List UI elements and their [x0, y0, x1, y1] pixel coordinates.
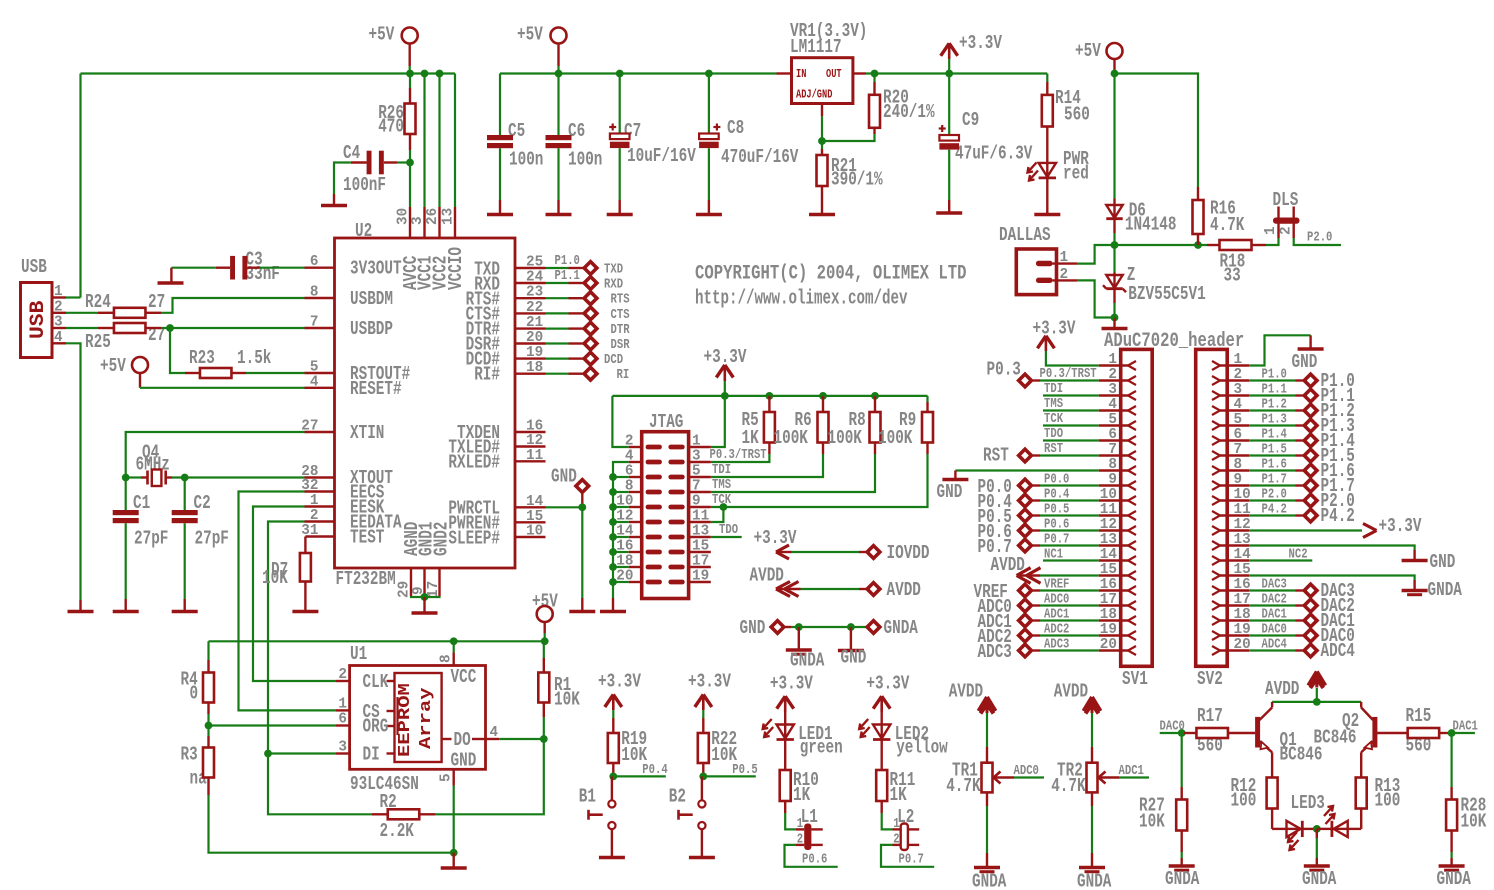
svg-text:RST: RST [983, 445, 1009, 467]
wire DAC3 from SV2 [1249, 578, 1303, 593]
capacitor C7 10uF/16V [607, 74, 697, 215]
svg-text:ADC3: ADC3 [978, 641, 1012, 663]
svg-text:ADC1: ADC1 [1044, 608, 1069, 623]
svg-text:B1: B1 [579, 786, 596, 808]
svg-text:GND: GND [451, 750, 477, 772]
wire DALLAS pin1 to data line [1078, 245, 1115, 264]
svg-text:P1.4: P1.4 [1262, 428, 1287, 443]
wire P1.3 from SV2 [1249, 413, 1303, 428]
wire NC1 stub [1043, 548, 1099, 563]
svg-text:Array: Array [417, 688, 436, 750]
svg-text:1: 1 [1262, 226, 1279, 235]
svg-text:P1.0: P1.0 [1262, 368, 1287, 383]
wire C3 to ground [158, 268, 216, 283]
svg-text:GNDA: GNDA [884, 617, 919, 639]
wire R5 to TRST [711, 454, 770, 462]
svg-text:1: 1 [1060, 249, 1069, 266]
LED3 pair [1272, 792, 1361, 850]
port RST [983, 445, 1032, 467]
svg-text:240/1%: 240/1% [883, 101, 935, 123]
wire EECS to EEPROM CS [239, 492, 336, 711]
capacitor C1 27pF [113, 478, 169, 612]
svg-text:470uF/16V: 470uF/16V [721, 146, 799, 168]
svg-text:R24: R24 [85, 291, 111, 313]
port P1.5 (SV2) [1304, 445, 1355, 467]
svg-text:470: 470 [378, 116, 404, 138]
wire DALLAS pin2 to ground [1078, 280, 1115, 317]
transistor Q1 BC846 [1258, 708, 1323, 778]
wire P2.0 from SV2 [1249, 488, 1303, 503]
wire ADC1 to SV1 [1033, 608, 1099, 623]
LED PWR red [1028, 148, 1090, 215]
wire DAC0 to R17 [1160, 729, 1186, 737]
svg-text:10uF/16V: 10uF/16V [627, 145, 696, 167]
svg-text:20: 20 [1234, 636, 1251, 653]
wire R25 to USBDP [161, 324, 305, 373]
wire ADC3 to SV1 [1033, 638, 1099, 653]
svg-text:+3.3V: +3.3V [1379, 515, 1422, 537]
svg-text:5: 5 [438, 773, 455, 782]
svg-text:4.7K: 4.7K [1210, 214, 1245, 236]
svg-text:GND: GND [740, 617, 766, 639]
svg-text:4.7K: 4.7K [1051, 775, 1086, 797]
svg-text:+5V: +5V [532, 591, 558, 613]
svg-text:GNDA: GNDA [1302, 868, 1337, 890]
trimmer TR2 4.7K [1051, 747, 1119, 806]
svg-text:USBDM: USBDM [350, 288, 393, 310]
svg-text:C9: C9 [962, 109, 979, 131]
wire net RXD [546, 282, 584, 284]
voltage regulator VR1 LM1117 [777, 20, 868, 116]
svg-text:4.7K: 4.7K [946, 775, 981, 797]
wire TDO from JTAG pin13 [711, 523, 742, 538]
svg-text:FT232BM: FT232BM [336, 568, 396, 590]
svg-text:P0.7: P0.7 [899, 853, 924, 868]
svg-text:4: 4 [310, 373, 319, 390]
svg-text:ADC4: ADC4 [1262, 638, 1287, 653]
power +5V symbol (EEPROM) [532, 591, 558, 634]
resistor R14 560 [1042, 74, 1090, 163]
svg-text:VCC: VCC [451, 666, 477, 688]
wire net CTS [546, 312, 584, 314]
port DAC0 (SV2) [1304, 625, 1355, 647]
svg-text:+5V: +5V [517, 24, 543, 46]
power AVDD arrow (TR2) [1054, 681, 1101, 747]
svg-text:P4.2: P4.2 [1321, 505, 1355, 527]
svg-text:P1.2: P1.2 [1262, 398, 1287, 413]
port VREF [974, 581, 1032, 603]
LED LED2 yellow [859, 712, 948, 770]
svg-text:10K: 10K [262, 567, 288, 589]
svg-text:1K: 1K [793, 784, 811, 806]
svg-text:SV1: SV1 [1122, 668, 1148, 690]
svg-text:P1.0: P1.0 [555, 254, 580, 269]
svg-text:C4: C4 [343, 142, 360, 164]
wire P0.6 net [785, 845, 838, 868]
button B1 [579, 776, 625, 857]
IC U2 FT232BM [301, 207, 545, 598]
svg-text:P0.4: P0.4 [642, 763, 667, 778]
svg-text:560: 560 [1064, 104, 1090, 126]
resistor R17 560 [1184, 705, 1255, 757]
svg-text:GND: GND [551, 466, 577, 488]
svg-text:U1: U1 [350, 643, 367, 665]
resistor R21 390/1% [809, 116, 883, 214]
port P1.6 (SV2) [1304, 460, 1355, 482]
ground GNDA symbol [786, 627, 825, 672]
svg-text:DSR: DSR [611, 338, 631, 353]
svg-text:GNDA: GNDA [1437, 868, 1472, 890]
svg-text:19: 19 [692, 568, 709, 585]
svg-text:RI: RI [617, 368, 630, 383]
wire TDI to SV1 pin3 [1043, 382, 1099, 397]
svg-text:ORG: ORG [363, 716, 389, 738]
wire EESK to EEPROM CLK [253, 507, 336, 682]
svg-text:10: 10 [526, 523, 543, 540]
svg-text:P1.7: P1.7 [1262, 473, 1287, 488]
wire DAC1 from SV2 [1249, 608, 1303, 623]
svg-text:EEPROM: EEPROM [396, 683, 415, 757]
trimmer TR1 4.7K [946, 747, 1014, 806]
power +3.3V arrow (R22) [688, 671, 731, 719]
wire SV2 pin13 to GND [1249, 546, 1455, 574]
wire +5V rail to VCC pins [81, 66, 456, 298]
wire TCK to SV1 pin5 [1043, 412, 1099, 427]
svg-text:IN: IN [796, 67, 806, 81]
wire TDO to SV1 pin6 [1043, 427, 1099, 442]
svg-text:TCK: TCK [1044, 412, 1064, 427]
svg-text:AVDD: AVDD [949, 681, 983, 703]
wire +3.3V pull-up rail [612, 392, 927, 447]
svg-text:AVDD: AVDD [1265, 678, 1299, 700]
resistor R27 10K [1139, 733, 1187, 852]
svg-text:8: 8 [310, 284, 319, 301]
resistor R5 1K [742, 396, 775, 454]
button B2 [669, 776, 715, 857]
power +3.3V arrow (SV1 pin1) [1033, 318, 1076, 352]
svg-text:4: 4 [54, 329, 63, 346]
svg-text:390/1%: 390/1% [831, 169, 883, 191]
svg-text:10K: 10K [1461, 811, 1487, 833]
wire AVDD rail to Q1 Q2 collectors [1272, 702, 1361, 708]
wire VR1 output to +3.3V [866, 70, 1047, 78]
connector SV1 [1099, 349, 1153, 690]
svg-text:GND: GND [1430, 551, 1456, 573]
svg-text:100K: 100K [878, 427, 913, 449]
svg-text:B2: B2 [669, 786, 686, 808]
capacitor C4 100nF [343, 142, 397, 196]
power +3.3V arrow (regulator output) [941, 32, 1003, 74]
power +3.3V arrow (LED1) [770, 672, 813, 712]
resistor R3 na [181, 736, 215, 795]
port P0.0 [978, 476, 1032, 498]
diode D6 1N4148 [1106, 199, 1176, 236]
svg-text:P1.1: P1.1 [1262, 383, 1287, 398]
svg-text:RI#: RI# [474, 364, 500, 386]
port RI [584, 367, 629, 383]
svg-text:ADC0: ADC0 [1014, 764, 1039, 779]
wire NC2 stub [1249, 548, 1312, 563]
wire net ADC0 [1014, 764, 1045, 779]
port GND near PWRCTL [551, 466, 589, 508]
port ADC0 [978, 596, 1032, 618]
svg-text:P0.6: P0.6 [1044, 518, 1069, 533]
resistor R12 100 [1231, 775, 1278, 829]
wire SV1 pin1 to +3.3V [1046, 351, 1099, 366]
wire EEDATA to EEPROM DI and R2 [264, 522, 372, 815]
svg-text:TEST: TEST [350, 527, 384, 549]
resistor D7 10K on TEST [262, 537, 318, 612]
svg-text:GNDA: GNDA [972, 871, 1007, 890]
wire P1.5 from SV2 [1249, 443, 1303, 458]
wire ADC2 to SV1 [1033, 623, 1099, 638]
ground GNDA below TR2 [1077, 806, 1112, 890]
svg-text:BC846: BC846 [1314, 727, 1357, 749]
resistor R11 1K [876, 769, 915, 813]
wire DLS pin2 to P2.0 [1294, 231, 1341, 246]
svg-text:+3.3V: +3.3V [704, 346, 747, 368]
wire net ADC1 [1119, 764, 1150, 779]
ground below C4 [321, 194, 347, 206]
svg-text:DAC1: DAC1 [1262, 608, 1287, 623]
resistor R24 27 [66, 291, 165, 318]
wire U1 DO to R1 [499, 735, 547, 743]
capacitor C8 470uF/16V [696, 74, 799, 215]
svg-text:P4.2: P4.2 [1262, 503, 1287, 518]
connector JTAG [616, 411, 711, 599]
svg-text:RXD: RXD [604, 278, 623, 293]
wire P1.1 from SV2 [1249, 383, 1303, 398]
wire ADC0 to SV1 [1033, 593, 1099, 608]
svg-text:TDI: TDI [712, 463, 731, 478]
svg-text:NC1: NC1 [1044, 548, 1063, 563]
port P0.5 [978, 506, 1032, 528]
svg-text:ADC2: ADC2 [1044, 623, 1069, 638]
svg-text:DI: DI [363, 744, 380, 766]
port RTS [584, 292, 629, 308]
svg-text:GNDA: GNDA [1165, 868, 1200, 890]
svg-text:GNDA: GNDA [790, 650, 825, 672]
svg-text:P0.3: P0.3 [987, 359, 1021, 381]
power +5V symbol (regulator rail) [517, 24, 567, 67]
svg-text:2: 2 [1278, 226, 1295, 235]
wire R4 to ORG [205, 714, 336, 736]
wire +5V to R16 and D6 [1111, 70, 1198, 199]
power +3.3V arrow (SV2 pin12) [1249, 515, 1422, 538]
wire ADC4 from SV2 [1249, 638, 1303, 653]
svg-text:100n: 100n [568, 149, 602, 171]
svg-text:http://www.olimex.com/dev: http://www.olimex.com/dev [695, 288, 908, 311]
svg-text:+3.3V: +3.3V [598, 671, 641, 693]
svg-text:GNDA: GNDA [1077, 871, 1112, 890]
svg-text:R25: R25 [85, 331, 111, 353]
ground GNDA below TR1 [972, 806, 1007, 890]
svg-text:1K: 1K [890, 784, 908, 806]
wire R23 to RSTOUT [246, 372, 305, 374]
svg-text:ADC1: ADC1 [1119, 764, 1144, 779]
svg-text:ADC3: ADC3 [1044, 638, 1069, 653]
wire C4 to junction [397, 161, 410, 163]
port DAC2 (SV2) [1304, 595, 1355, 617]
capacitor C6 100n [546, 74, 603, 215]
svg-text:100K: 100K [828, 427, 863, 449]
svg-text:VCCIO: VCCIO [445, 247, 467, 290]
svg-text:P1.3: P1.3 [1262, 413, 1287, 428]
svg-text:+3.3V: +3.3V [770, 672, 813, 694]
power +3.3V arrow (JTAG rail) [704, 346, 747, 396]
svg-text:GNDA: GNDA [1428, 579, 1463, 601]
svg-text:31: 31 [301, 522, 318, 539]
wire P0.4 to SV1 [1033, 488, 1099, 503]
wire TMS to SV1 pin4 [1043, 397, 1099, 412]
wire P1.7 from SV2 [1249, 473, 1303, 488]
resistor R6 100K [774, 396, 829, 454]
wire R8 to TMS [711, 454, 875, 492]
power +5V symbol (USB rail) [369, 24, 418, 67]
resistor R15 560 [1377, 705, 1451, 757]
svg-text:4: 4 [490, 724, 499, 741]
svg-text:ADC4: ADC4 [1321, 640, 1355, 662]
wire net DCD [546, 358, 584, 360]
svg-text:20: 20 [1100, 636, 1117, 653]
svg-text:3V3OUT: 3V3OUT [350, 258, 402, 280]
wire DAC0 from SV2 [1249, 623, 1303, 638]
svg-text:NC2: NC2 [1289, 548, 1308, 563]
port AVDD middle with arrow [750, 565, 921, 602]
svg-text:CTS: CTS [611, 308, 630, 323]
wire U1 GND to ground [441, 786, 467, 869]
svg-text:R3: R3 [181, 744, 198, 766]
svg-text:RTS: RTS [611, 293, 630, 308]
port P2.0 (SV2) [1304, 490, 1355, 512]
wire R11 to L2 pin1 [882, 813, 893, 829]
svg-text:LM1117: LM1117 [790, 36, 842, 58]
wire R3 to ground line [209, 795, 454, 853]
svg-text:33: 33 [1224, 265, 1241, 287]
resistor R19 10K [608, 718, 648, 776]
svg-text:+5V: +5V [369, 24, 395, 46]
svg-text:P0.7: P0.7 [1044, 533, 1069, 548]
svg-text:SV2: SV2 [1197, 668, 1223, 690]
svg-text:TDO: TDO [719, 523, 738, 538]
resistor R10 1K [780, 769, 819, 813]
svg-text:GND: GND [937, 481, 963, 503]
crystal Q4 6MHz [126, 442, 172, 487]
svg-text:LED3: LED3 [1291, 792, 1325, 814]
svg-text:P2.0: P2.0 [1262, 488, 1287, 503]
svg-text:2.2K: 2.2K [380, 820, 415, 842]
wire SV2 pin1 to GND [1249, 335, 1323, 373]
capacitor C3 33nF [216, 249, 280, 286]
svg-text:R17: R17 [1197, 705, 1223, 727]
connector DALLAS [999, 224, 1078, 295]
wire P1.4 from SV2 [1249, 428, 1303, 443]
svg-text:DTR: DTR [611, 323, 631, 338]
port P1.4 (SV2) [1304, 430, 1355, 452]
port P4.2 (SV2) [1304, 505, 1355, 527]
svg-text:2: 2 [338, 666, 347, 683]
wire JTAG pin11 to TCK [711, 503, 728, 522]
svg-text:13: 13 [440, 208, 457, 225]
resistor R20 240/1% [822, 74, 935, 142]
svg-text:+5V: +5V [100, 355, 126, 377]
svg-text:DAC3: DAC3 [1262, 578, 1287, 593]
svg-text:DAC2: DAC2 [1262, 593, 1287, 608]
wire USB pin4 to ground [66, 343, 81, 600]
resistor R22 10K [698, 718, 738, 776]
wire P0.7 net [881, 845, 934, 868]
port GND to GNDA tie [740, 617, 919, 639]
svg-text:P0.6: P0.6 [802, 853, 827, 868]
port ADC4 (SV2) [1304, 640, 1355, 662]
svg-text:1K: 1K [742, 427, 760, 449]
svg-text:+3.3V: +3.3V [959, 32, 1002, 54]
resistor R23 1.5k [185, 347, 271, 378]
svg-text:USB: USB [21, 256, 47, 278]
resistor R25 27 [66, 323, 165, 353]
svg-text:100K: 100K [774, 427, 809, 449]
svg-text:RXLED#: RXLED# [448, 452, 500, 474]
svg-text:CLK: CLK [363, 671, 389, 693]
port DCD [584, 352, 623, 368]
svg-text:C8: C8 [727, 117, 744, 139]
wire +5V to RESET pin [140, 387, 305, 389]
svg-text:R15: R15 [1406, 705, 1432, 727]
svg-text:P1.6: P1.6 [1262, 458, 1287, 473]
svg-text:TMS: TMS [1044, 397, 1063, 412]
svg-text:1N4148: 1N4148 [1125, 214, 1177, 236]
jumper L1 [796, 806, 823, 850]
svg-text:8: 8 [438, 654, 455, 663]
svg-text:TDO: TDO [1044, 427, 1063, 442]
resistor R2 2.2K [372, 791, 435, 842]
port P1.3 (SV2) [1304, 415, 1355, 437]
svg-text:P0.5: P0.5 [732, 763, 757, 778]
svg-text:100nF: 100nF [343, 174, 386, 196]
wire P0.6 to SV1 [1033, 518, 1099, 533]
svg-text:0: 0 [190, 683, 199, 705]
svg-text:P0.0: P0.0 [1044, 473, 1069, 488]
svg-text:COPYRIGHT(C) 2004, OLIMEX LTD: COPYRIGHT(C) 2004, OLIMEX LTD [695, 263, 966, 286]
port P0.3 [987, 359, 1032, 387]
svg-text:TMS: TMS [712, 478, 731, 493]
svg-text:+3.3V: +3.3V [1033, 318, 1076, 340]
wire R6 to TDI [711, 454, 823, 477]
svg-text:XTIN: XTIN [350, 422, 384, 444]
resistor R13 100 [1356, 775, 1401, 829]
svg-text:P0.5: P0.5 [1044, 503, 1069, 518]
svg-text:1.5k: 1.5k [237, 347, 271, 369]
port CTS [584, 307, 629, 323]
resistor R9 100K [878, 396, 933, 454]
port ADC3 [978, 641, 1032, 663]
power AVDD arrow (TR1) [949, 681, 996, 747]
svg-text:DCD: DCD [604, 353, 623, 368]
svg-text:P2.0: P2.0 [1307, 231, 1332, 246]
wire R18 to DLS pin1 [1266, 238, 1279, 245]
wire C4 to ground [334, 163, 351, 195]
port P1.0 (SV2) [1304, 370, 1355, 392]
svg-text:+3.3V: +3.3V [688, 671, 731, 693]
svg-text:3: 3 [338, 739, 347, 756]
ground below U2 [411, 593, 440, 613]
wire P4.2 from SV2 [1249, 503, 1303, 518]
svg-text:+5V: +5V [1075, 40, 1101, 62]
wire R24 to USBDM [161, 298, 305, 313]
port DSR [584, 337, 630, 353]
svg-text:AVDD: AVDD [887, 579, 921, 601]
wire net RTS [546, 297, 584, 299]
